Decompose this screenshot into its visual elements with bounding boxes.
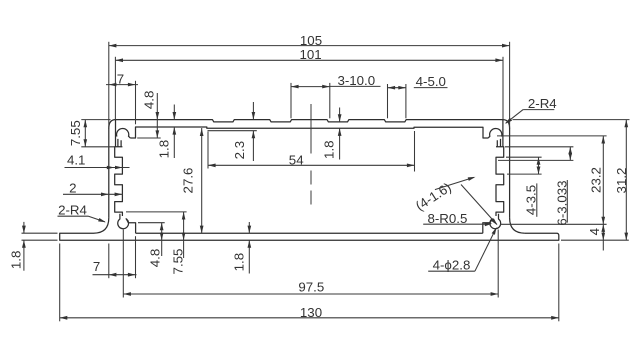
screw boss bottom-right (open circular port) [490,214,501,229]
dimension 101 [115,59,503,61]
dimension 3-10.0 [291,86,330,88]
dimension 97.5 extension lines [122,230,124,298]
svg-text:4: 4 [587,228,602,235]
dimension 105 extension lines [108,42,110,128]
dimension 130 extension lines [59,244,61,322]
profile left wall outer face [108,128,110,218]
dimension 7 bottom extension lines [108,244,110,279]
dimension 6-3.033 [569,147,571,161]
dimension 4-3.5 extension lines [506,156,542,158]
dimension 4.8 top [156,93,158,138]
svg-text:27.6: 27.6 [180,168,195,194]
dimension 54 [208,164,415,166]
screw boss top-right (open circular port) [502,120,504,147]
dimension 7.55 bottom [183,212,185,258]
dimension 2.3 [252,102,254,120]
left wall inner face with 3 grooves [115,147,123,216]
dimension 7.55 left extension lines [81,119,110,121]
dimension 7 top [106,84,138,86]
svg-text:2-R4: 2-R4 [58,202,87,217]
svg-text:1.8: 1.8 [9,251,24,270]
interior floor line [136,232,483,234]
svg-text:54: 54 [289,152,304,167]
dimension 7 bottom [93,274,137,276]
profile top-left corner fillet [109,120,116,129]
dimension 1.8 top-left [173,105,175,120]
dimension 1.8 bottom [248,222,250,233]
dimension 4 right extension line [561,239,629,241]
svg-text:4-3.5: 4-3.5 [524,185,539,215]
profile bottom-left R4 fillet [94,218,109,233]
dimension 97.5 [123,293,498,295]
dimension 4-5.0 extension lines [387,84,389,118]
svg-text:1.8: 1.8 [322,140,337,159]
right wall inner face with 3 grooves [496,147,504,216]
dimension 2.3 extension line [208,130,257,132]
dimension 54 extension lines [207,132,209,169]
dimension 23.2 [602,136,604,224]
svg-text:31.2: 31.2 [614,168,629,194]
dimension 7 top extension line [135,81,137,125]
dimension 4.8 top extension line [137,137,161,139]
dimension 1.8 left flange [23,222,25,233]
svg-text:130: 130 [300,305,322,320]
profile right wall outer face [509,128,511,218]
dimension 23.2 extension lines [497,135,607,137]
svg-text:23.2: 23.2 [589,167,604,193]
svg-text:4.8: 4.8 [148,249,163,268]
left interior ledge [128,223,135,234]
dimension 4-5.0 [388,87,406,89]
svg-text:4.8: 4.8 [142,91,157,110]
svg-text:101: 101 [300,47,322,62]
dimension 3-10.0 extension lines [290,83,292,118]
profile bottom plate [60,233,559,240]
dimension 1.8 middle [339,108,341,122]
svg-text:3-10.0: 3-10.0 [337,73,375,88]
svg-text:7: 7 [117,72,124,87]
dimension 101 extension lines [114,57,116,120]
dimension 6-3.033 extension lines [505,146,573,148]
svg-text:7.55: 7.55 [171,249,186,275]
dimension 31.2 extension line [513,119,630,121]
dimension 4.8 bottom [161,223,163,256]
dimension 7.55 bottom extension line [126,211,187,213]
svg-text:4-ϕ2.8: 4-ϕ2.8 [433,258,471,273]
svg-text:105: 105 [300,33,322,48]
svg-text:7: 7 [93,259,100,274]
dimension 31.2 [625,120,627,241]
profile top plate underside [130,127,488,138]
svg-text:2: 2 [69,180,76,195]
svg-text:2-R4: 2-R4 [528,96,557,111]
svg-text:4-5.0: 4-5.0 [416,74,446,89]
screw boss top-left (open circular port) [115,120,117,147]
dimension 4 right [602,224,604,240]
dimension 130 [60,317,559,319]
svg-text:97.5: 97.5 [298,279,324,294]
svg-text:4.1: 4.1 [67,152,86,167]
profile top surface with 4 slot recesses [115,120,503,122]
svg-text:1.8: 1.8 [232,253,247,272]
dimension 1.8 left flange extension lines [22,232,58,234]
dimension 105 [109,45,510,47]
dimension 4-3.5 [538,157,540,174]
right interior ledge [483,223,490,234]
screw boss bottom-left (open circular port) [118,214,129,229]
dimension 7.55 left [84,120,86,147]
vertical centerline [310,104,312,205]
profile top-right corner fillet [503,120,510,129]
svg-text:7.55: 7.55 [68,120,83,146]
svg-text:1.8: 1.8 [157,140,172,159]
dimension 27.6 [201,128,203,233]
svg-text:2.3: 2.3 [232,141,247,160]
profile bottom-right R4 fillet [510,218,525,233]
dimension 4.8 bottom extension line [138,222,165,224]
